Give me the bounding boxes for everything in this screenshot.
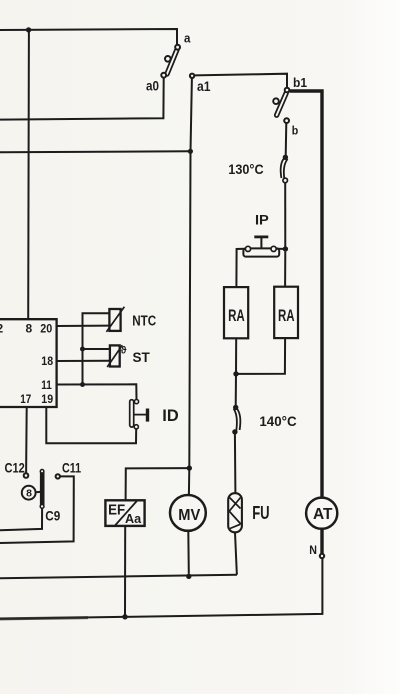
svg-text:ST: ST: [133, 349, 151, 365]
node junction ST branch: [80, 347, 85, 352]
switch ID: [130, 400, 148, 429]
svg-text:C11: C11: [62, 460, 81, 475]
wire 140C to FU: [234, 434, 237, 493]
node junction EF-bottom: [122, 614, 127, 619]
wire C11 down-left: [0, 476, 74, 543]
pushbutton IP: [243, 237, 279, 257]
terminal C12: [24, 473, 29, 478]
wire top phase line: [0, 29, 177, 45]
heater AT: [306, 498, 337, 529]
svg-text:N: N: [309, 545, 317, 557]
svg-text:RA: RA: [278, 307, 295, 325]
svg-text:130°C: 130°C: [228, 161, 263, 177]
wire pin17 to C12: [25, 407, 28, 473]
wire pin11 to ID: [57, 384, 137, 399]
wire pin20 to NTC: [57, 325, 110, 327]
thermal cutout 130C: [281, 155, 288, 183]
terminal a1: [190, 74, 194, 78]
svg-text:8: 8: [26, 321, 33, 335]
svg-text:FU: FU: [252, 503, 269, 523]
wire a1 line: [0, 150, 190, 153]
wire EF bottom: [124, 526, 126, 616]
wire FU to bottom line: [235, 532, 237, 574]
svg-text:8: 8: [26, 487, 32, 499]
svg-text:b: b: [292, 123, 299, 137]
resistor RA2: [274, 287, 298, 338]
svg-text:Aa: Aa: [125, 511, 142, 526]
svg-text:20: 20: [40, 321, 52, 335]
wire node to RA2: [284, 252, 286, 287]
terminal N: [320, 554, 324, 558]
switch b1: [273, 88, 289, 123]
filter EF/Aa: [105, 500, 144, 526]
fuse FU: [228, 493, 242, 532]
svg-text:MV: MV: [178, 507, 200, 524]
svg-text:140°C: 140°C: [259, 414, 296, 429]
node junction a1: [188, 149, 193, 154]
motor MV: [170, 495, 206, 531]
wire IP right stub: [276, 248, 283, 250]
svg-text:C12: C12: [5, 460, 25, 475]
svg-text:ϑ: ϑ: [121, 346, 127, 357]
svg-text:a: a: [184, 30, 191, 45]
svg-text:19: 19: [41, 392, 53, 406]
node junction top-left: [26, 27, 31, 32]
svg-text:18: 18: [41, 354, 53, 368]
wire a1 to b1: [194, 74, 287, 88]
svg-text:a0: a0: [146, 78, 159, 93]
node junction pin11: [80, 382, 85, 387]
wire ID to pin19: [46, 407, 136, 443]
wire EF top: [126, 468, 190, 500]
thermal cutout 140C: [233, 405, 241, 434]
wire RA bottoms merge: [236, 338, 285, 406]
wire b to 130C: [285, 123, 288, 156]
svg-text:EF: EF: [108, 501, 125, 518]
wire pin8 circle tick: [36, 491, 41, 493]
wire IP left to RA1: [236, 249, 245, 287]
switch a: [161, 45, 194, 78]
svg-text:ID: ID: [162, 406, 178, 425]
svg-text:RA: RA: [228, 307, 245, 325]
connector bar C9: [40, 470, 45, 509]
wire NTC top branch: [83, 313, 110, 384]
node junction RA: [233, 371, 238, 376]
svg-text:IP: IP: [255, 212, 269, 227]
svg-text:NTC: NTC: [132, 314, 156, 330]
sensor ST: [107, 345, 122, 367]
wire pin8 vertical: [27, 30, 30, 319]
thermistor NTC: [106, 307, 124, 332]
wire pin18 to ST: [57, 360, 110, 362]
wire live thick L-N rail: [289, 91, 322, 554]
wire a0 return line: [0, 78, 164, 120]
wire ST top branch: [83, 348, 110, 350]
node junction EF/MV top: [187, 465, 192, 470]
svg-text:11: 11: [41, 378, 52, 392]
IC U1: [0, 319, 57, 407]
pin 8 circle: [22, 486, 36, 500]
wire a1 vertical: [189, 78, 192, 495]
node junction IP-right: [283, 246, 288, 251]
wire C9 down-left: [0, 508, 42, 530]
resistor RA1: [224, 287, 248, 338]
node junction MV-bottom: [186, 574, 191, 579]
svg-text:17: 17: [20, 392, 31, 406]
svg-text:a1: a1: [197, 78, 211, 94]
wire MV bottom: [187, 531, 190, 574]
smudge left of line B: [0, 618, 88, 619]
svg-text:AT: AT: [313, 506, 333, 523]
wire bottom line B: [0, 558, 322, 618]
svg-text:C9: C9: [45, 509, 60, 524]
terminal C11: [56, 474, 60, 478]
svg-text:b1: b1: [293, 76, 307, 90]
wire 130C to IP node: [284, 183, 286, 247]
wire bottom line A: [0, 575, 237, 578]
svg-text:2: 2: [0, 321, 4, 335]
